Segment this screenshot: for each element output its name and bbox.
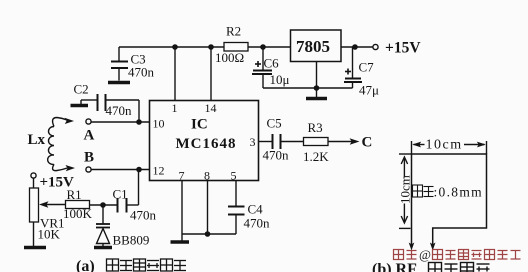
wire: rail to pin 14 — [210, 47, 212, 101]
svg-text:470n: 470n — [244, 216, 271, 231]
wire: C5 to R3 — [281, 141, 304, 143]
wire: pin 7 to bus — [181, 181, 183, 235]
wire: pin 5 to C4 — [235, 181, 237, 207]
wire: ground bus under 7805 — [263, 87, 353, 89]
svg-text:C6: C6 — [264, 56, 280, 71]
svg-text:100K: 100K — [63, 206, 93, 221]
svg-text:470n: 470n — [130, 208, 157, 223]
resistor R2 — [224, 43, 248, 52]
wire: rail to pin 1 — [174, 47, 176, 101]
terminal +15V (top output) — [373, 44, 378, 49]
node: B junction — [136, 167, 142, 173]
svg-text:470n: 470n — [263, 148, 290, 163]
svg-text:470n: 470n — [128, 65, 155, 80]
svg-text:100Ω: 100Ω — [215, 50, 244, 65]
node: R1/C1/BB809 junction — [100, 202, 106, 208]
svg-text:C5: C5 — [267, 116, 282, 131]
node: R2 output junction — [260, 44, 266, 50]
svg-text:10K: 10K — [38, 227, 61, 242]
svg-text:470n: 470n — [106, 103, 133, 118]
svg-text:C1: C1 — [113, 187, 128, 202]
node: ground bus junction — [314, 85, 320, 91]
svg-text:C2: C2 — [74, 82, 89, 97]
capacitor C4 — [228, 207, 245, 235]
svg-text:10cm: 10cm — [426, 138, 463, 153]
svg-text:10μ: 10μ — [270, 72, 290, 87]
capacitor C2 — [81, 94, 139, 122]
caption (a) inductance measuring circuit — [76, 258, 186, 272]
capacitor C6 (electrolytic) — [252, 47, 272, 88]
caption (b) RF standard coil — [372, 261, 490, 272]
node: C7 junction — [352, 44, 358, 50]
ground (C2) — [71, 100, 89, 106]
svg-text:1: 1 — [172, 101, 178, 115]
svg-text:12: 12 — [153, 164, 165, 178]
varactor diode BB809 — [96, 205, 110, 246]
dimension: 10cm height — [399, 154, 411, 228]
ground (VR1) — [24, 246, 46, 250]
svg-text:7: 7 — [179, 169, 185, 183]
svg-text:3: 3 — [250, 135, 256, 149]
label: wire diameter 0.8mm — [413, 185, 483, 200]
watermark (red) — [394, 247, 521, 262]
svg-text:1.2K: 1.2K — [303, 149, 329, 164]
svg-text:10cm: 10cm — [398, 175, 413, 204]
wire: 7805 ground lead — [316, 62, 318, 98]
coil lead arrow (left) — [409, 243, 415, 251]
ground (BB809) — [94, 246, 112, 250]
svg-text:MC1648: MC1648 — [176, 136, 237, 152]
svg-text:C7: C7 — [359, 60, 375, 75]
potentiometer VR1 — [30, 178, 66, 246]
svg-text:7805: 7805 — [296, 37, 330, 56]
svg-text:R3: R3 — [308, 120, 323, 135]
capacitor C1 — [118, 170, 139, 213]
terminal B — [86, 167, 91, 172]
svg-text:R1: R1 — [67, 187, 82, 202]
svg-text:@: @ — [419, 247, 431, 262]
wire: output arrow to C — [328, 138, 360, 145]
node: pin 8 bus junction — [205, 231, 211, 237]
svg-text:R2: R2 — [226, 24, 241, 39]
svg-text:8: 8 — [204, 169, 210, 183]
ground (pin 7) — [171, 234, 190, 242]
resistor R3 — [304, 138, 329, 146]
inductor Lx — [48, 118, 75, 172]
RF standard coil outline — [412, 154, 487, 248]
node: pin 14 junction — [208, 44, 214, 50]
svg-text:BB809: BB809 — [113, 233, 150, 248]
svg-text::0.8mm: :0.8mm — [434, 185, 483, 200]
svg-text:C: C — [362, 135, 373, 151]
wire: pin 3 output — [259, 141, 273, 143]
svg-text:A: A — [84, 128, 95, 144]
wire: 7805 output — [341, 46, 373, 48]
svg-text:Lx: Lx — [28, 132, 46, 148]
svg-text:47μ: 47μ — [359, 83, 379, 98]
wire: +15V top rail — [119, 46, 291, 48]
svg-text:+15V: +15V — [385, 40, 421, 57]
svg-text:5: 5 — [231, 169, 237, 183]
capacitor C5 — [273, 134, 281, 149]
wire: bottom bus — [182, 233, 236, 235]
svg-text:B: B — [84, 150, 94, 166]
coil lead arrow (right) — [430, 243, 436, 251]
node: A junction — [136, 119, 142, 125]
dimension: 10cm width — [412, 141, 487, 154]
ground (7805) — [306, 97, 327, 101]
resistor R1 — [66, 201, 90, 209]
wire: B to pin 12 — [91, 169, 150, 171]
svg-text:10: 10 — [153, 117, 165, 131]
svg-text:(b) RF: (b) RF — [372, 261, 417, 272]
node: pin 1 junction — [172, 44, 178, 50]
wire: pin 8 to bus — [207, 181, 209, 235]
capacitor C7 (electrolytic) — [344, 47, 362, 88]
svg-text:IC: IC — [191, 117, 208, 133]
terminal +15V (VR1 supply) — [31, 173, 36, 178]
wire: R1 to junction — [90, 204, 118, 206]
svg-text:(a): (a) — [76, 258, 95, 272]
terminal A — [86, 119, 91, 124]
svg-text:14: 14 — [205, 101, 217, 115]
ground (below C3) — [108, 81, 130, 85]
voltage regulator 7805 — [291, 30, 342, 62]
svg-text:C4: C4 — [248, 202, 264, 217]
IC MC1648 — [150, 101, 259, 181]
capacitor C3 — [111, 47, 128, 81]
wire: A to pin 10 — [91, 121, 150, 123]
